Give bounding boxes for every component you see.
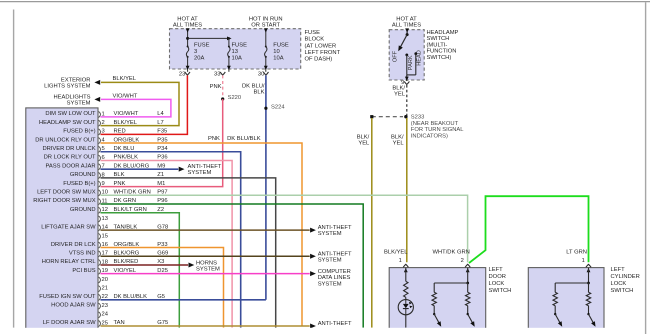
svg-text:23: 23 [179,71,185,77]
svg-text:L4: L4 [157,111,164,117]
wire ORG/BLK P33 row 16 [101,248,224,328]
svg-text:G69: G69 [157,251,168,257]
svg-text:ANTI-THEFT: ANTI-THEFT [188,164,222,170]
wire WHT/DK GRN P97 row 10 to door lock switch pin 2 [101,195,468,262]
door lock switch pin 2 wire and junction [434,268,469,285]
wire PNK/BLK P36 row 6 [101,160,233,327]
cylinder lock switch pin 1 wire and junction [555,268,590,285]
svg-text:21: 21 [102,286,108,292]
svg-text:BLK/YEL: BLK/YEL [113,76,137,82]
svg-text:BLK/: BLK/ [357,134,370,140]
svg-text:FUSE: FUSE [194,42,210,48]
module pin 5 [42,146,104,152]
frame right border [645,2,647,334]
svg-text:G78: G78 [157,224,168,230]
label HEAD [416,50,422,66]
svg-text:CYLINDER: CYLINDER [611,274,640,280]
svg-text:13: 13 [232,49,238,55]
svg-text:SWITCH: SWITCH [489,288,512,294]
cylinder lock switch blade (lock) [587,313,595,327]
svg-text:EXTERIOR: EXTERIOR [61,77,91,83]
svg-text:VIO/WHT: VIO/WHT [113,93,138,99]
svg-text:INDICATORS): INDICATORS) [411,134,448,140]
wire RED F35 label row 3 [114,129,168,135]
svg-text:SYSTEM: SYSTEM [318,281,342,287]
svg-text:PNK: PNK [210,84,222,90]
svg-text:1: 1 [582,258,585,264]
module pin 7 [45,163,104,169]
svg-text:F35: F35 [157,129,167,135]
module pin 24 [99,312,109,318]
svg-text:LF DOOR AJAR SW: LF DOOR AJAR SW [43,320,96,326]
headlamp switch blade (OFF position) [398,35,407,52]
splice S220 [221,97,224,100]
system reference ANTI-THEFT SYSTEM (row 25) [318,321,352,327]
module pin 1 [45,111,104,117]
wire VIO/WHT L4 label row 1 [114,111,165,117]
label BLK/YEL (right branch) [391,134,404,146]
svg-text:15: 15 [102,233,108,239]
svg-text:13: 13 [102,216,108,222]
svg-text:2: 2 [102,120,105,126]
svg-text:10: 10 [273,49,279,55]
label DK BLU/BLK (mid) [227,136,261,142]
svg-text:FUSED B(+): FUSED B(+) [63,181,95,187]
svg-text:D25: D25 [157,268,168,274]
wire BLK/YEL from pin 9 to splice S233 (dashed) [406,85,408,117]
svg-text:SWITCH): SWITCH) [427,55,452,61]
svg-text:HOT AT: HOT AT [396,16,417,22]
svg-text:BLK/YEL: BLK/YEL [384,249,408,255]
svg-text:FUSE: FUSE [232,42,248,48]
svg-text:1: 1 [399,258,402,264]
svg-text:BLOCK: BLOCK [305,37,325,43]
svg-text:DR LOCK RLY OUT: DR LOCK RLY OUT [44,155,96,161]
svg-text:LEFT: LEFT [611,267,626,273]
svg-text:VTSS IND: VTSS IND [69,251,96,257]
svg-text:SYSTEM: SYSTEM [196,267,220,273]
svg-text:G75: G75 [157,320,168,326]
svg-text:VIO/YEL: VIO/YEL [114,268,137,274]
svg-text:33: 33 [214,71,220,77]
fuse F13 10A [228,38,247,71]
svg-text:FUSED IGN SW OUT: FUSED IGN SW OUT [39,294,96,300]
svg-text:LOCK: LOCK [489,281,505,287]
svg-text:PARK: PARK [408,55,414,70]
svg-text:DK BLU/BLK: DK BLU/BLK [114,294,148,300]
label PARK [408,55,414,70]
svg-text:LOCK: LOCK [611,281,627,287]
svg-text:10A: 10A [273,56,283,62]
module pin 23 [51,303,108,309]
svg-text:DK BLU/ORG: DK BLU/ORG [114,163,150,169]
svg-text:BLK: BLK [114,172,125,178]
svg-text:RED: RED [114,129,126,135]
label LEFT DOOR LOCK SWITCH [489,267,512,294]
svg-text:9: 9 [102,181,105,187]
label WHT/DK GRN (door lock pin 2) [433,249,470,255]
module pin 4 [35,137,105,143]
svg-text:OF DASH): OF DASH) [305,57,333,63]
wire PNK dashed from fuse 13 pin 33 to S220 [222,75,224,99]
cylinder lock resistor R5 [586,283,590,314]
label BLK/YEL (exterior lights wire) [113,76,137,82]
svg-text:LEFT FRONT: LEFT FRONT [305,50,341,56]
svg-text:P36: P36 [157,155,167,161]
svg-text:(MULTI-: (MULTI- [427,42,448,48]
module pin 17 [69,251,108,257]
svg-text:HEADLAMP SW OUT: HEADLAMP SW OUT [39,120,96,126]
svg-text:PASS DOOR AJAR: PASS DOOR AJAR [45,163,95,169]
fuse F3 20A [186,42,209,72]
svg-text:P35: P35 [157,137,167,143]
fuse block pin 23 [179,71,190,77]
body control module connector (box) [26,108,98,330]
module pin 22 [39,294,108,300]
svg-text:LEFT DOOR SW MUX: LEFT DOOR SW MUX [37,190,96,196]
wire BLK/RED X3 row 18 to horns [101,262,195,267]
system reference EXTERIOR LIGHTS SYSTEM [44,77,100,89]
svg-text:23: 23 [102,303,108,309]
svg-text:2: 2 [461,258,464,264]
svg-text:DOOR: DOOR [489,274,506,280]
label HOT IN RUN OR START [249,16,283,28]
label S224 [271,105,285,111]
wire BLK/LT GRN Z2 row 12 [101,213,180,328]
svg-text:P97: P97 [157,190,167,196]
svg-text:Z1: Z1 [157,172,164,178]
module pin 18 [42,259,108,265]
headlamp switch output to pin 9 [406,75,408,81]
svg-text:HORN RELAY CTRL: HORN RELAY CTRL [42,259,97,265]
label BLK/YEL (door lock pin 1) [384,249,408,255]
wire BLK/YEL left branch down (to below) [371,118,373,328]
svg-text:P34: P34 [157,146,168,152]
door lock switch pin 2 [461,258,471,267]
headlamp switch pin 9 [401,80,409,86]
label PNK (mid) [208,136,220,142]
fuse block (box) [170,29,301,69]
module pin 9 [63,181,105,187]
svg-text:TAN: TAN [114,320,125,326]
module pin 20 [99,277,108,283]
svg-text:DRIVER DR UNLCK: DRIVER DR UNLCK [42,146,95,152]
svg-text:S224: S224 [271,105,285,111]
svg-text:ANTI-THEFT: ANTI-THEFT [318,321,352,327]
svg-text:DIM SW LOW OUT: DIM SW LOW OUT [45,111,96,117]
system reference ANTI-THEFT SYSTEM (row 7) [188,164,222,176]
door lock resistor R2 (unlock side) [432,283,436,314]
svg-text:ORG/BLK: ORG/BLK [114,137,140,143]
svg-text:DK BLU/: DK BLU/ [242,84,265,90]
svg-text:10A: 10A [232,56,242,62]
module pin 6 [44,155,105,161]
svg-text:L7: L7 [157,120,163,126]
fuse block pin 30 [258,71,269,77]
svg-text:M9: M9 [157,163,165,169]
svg-text:HOOD AJAR SW: HOOD AJAR SW [51,303,96,309]
cylinder lock resistor R4 [553,283,557,314]
svg-text:Z2: Z2 [157,207,164,213]
svg-text:LEFT: LEFT [489,267,504,273]
label LEFT CYLINDER LOCK SWITCH [611,267,640,294]
svg-text:HORNS: HORNS [196,260,217,266]
label VIO/WHT (headlights wire) [113,93,138,99]
svg-text:SWITCH: SWITCH [611,288,634,294]
svg-text:FUSE: FUSE [305,30,321,36]
label DK BLU/BLK (pin 30) [242,84,265,96]
svg-text:SYSTEM: SYSTEM [318,257,342,263]
label S220 [228,95,242,101]
system reference ANTI-THEFT SYSTEM (row 14) [318,225,352,237]
system reference HEADLIGHTS SYSTEM [53,94,100,106]
svg-text:DATA LINES: DATA LINES [318,275,351,281]
module pin 3 [63,129,105,135]
svg-text:20A: 20A [194,56,204,62]
svg-text:BLK/ORG: BLK/ORG [114,251,140,257]
headlamp switch PARK terminal [405,54,408,75]
svg-text:BLK/: BLK/ [392,85,405,91]
wire BLK/YEL L7 from module pin 2 to exterior lights system [101,82,180,125]
frame left border [13,10,15,328]
svg-text:(NEAR BEAKOUT: (NEAR BEAKOUT [411,121,459,127]
wire LT GRN from door lock switch pin 2 to cylinder lock switch pin 1 [469,196,589,263]
door lock switch blade (unlock) [433,313,441,327]
wire ORG/BLK P35 row 4 [101,143,303,326]
box-edge exit arrows (fuse block) [186,28,268,70]
svg-text:RIGHT DOOR SW MUX: RIGHT DOOR SW MUX [33,198,96,204]
wire VIO/YEL D25 row 19 to computer data lines [101,271,316,276]
svg-text:HOT AT: HOT AT [177,16,198,22]
svg-text:YEL: YEL [393,141,405,147]
module pin 13 [99,216,108,222]
svg-text:DK BLU/BLK: DK BLU/BLK [227,136,261,142]
svg-text:(AT LOWER: (AT LOWER [305,43,337,49]
svg-text:LIFTGATE AJAR SW: LIFTGATE AJAR SW [41,224,96,230]
svg-text:DK GRN: DK GRN [114,198,137,204]
svg-text:HEADLIGHTS: HEADLIGHTS [53,94,90,100]
system reference COMPUTER DATA LINES SYSTEM [318,269,351,288]
bus wire fuse 3 to fuse 13 with arrow [188,37,232,41]
svg-text:FOR TURN SIGNAL: FOR TURN SIGNAL [411,127,464,133]
system reference ANTI-THEFT SYSTEM (row 17) [318,251,352,263]
label PNK (pin 33) [210,84,222,90]
svg-text:WHT/DK GRN: WHT/DK GRN [114,190,151,196]
door lock resistor R3 (lock side) [466,283,470,314]
cylinder lock switch pin 1 [582,258,592,267]
svg-text:S233: S233 [411,115,425,121]
splice S233 [404,115,407,118]
svg-text:24: 24 [102,312,109,318]
wire PNK M1 from S220 to module pin 9 [101,99,223,187]
module pin 10 [37,190,108,196]
cylinder lock switch blade (unlock) [554,313,562,327]
svg-text:FUSE: FUSE [273,42,289,48]
frame top border [0,1,650,3]
headlamp switch U1 (box) [389,30,424,80]
wire BLK/ORG G69 row 17 to anti-theft [101,254,316,259]
svg-text:3: 3 [102,129,105,135]
wire VIO/WHT L4 from module pin 1 to headlights system [101,99,171,117]
svg-text:COMPUTER: COMPUTER [318,269,351,275]
wire DK BLU/ORG M9 row 7 to anti-theft [101,167,185,172]
fuse F10 10A [265,29,289,72]
wire BLK/YEL right branch down to door lock switch pin 1 [406,118,408,262]
svg-text:LIGHTS SYSTEM: LIGHTS SYSTEM [44,84,91,90]
module pin 16 [51,242,108,248]
svg-text:GROUND: GROUND [70,207,96,213]
module pin 2 [39,120,105,126]
svg-text:X3: X3 [157,259,164,265]
left cylinder lock switch (box) [528,268,604,330]
svg-text:3: 3 [194,49,197,55]
svg-text:SYSTEM: SYSTEM [318,231,342,237]
door lock switch blade (lock) [467,313,475,327]
svg-text:BLK/RED: BLK/RED [114,259,139,265]
svg-text:FUSED B(+): FUSED B(+) [63,129,95,135]
wire DK BLU/BLK G5 row 22 [101,299,266,301]
svg-text:PNK: PNK [114,181,126,187]
svg-text:LT GRN: LT GRN [566,249,587,255]
wire RED F35 from fuse 3 pin 23 to module pin 3 [101,75,188,134]
module pin 11 [33,198,107,204]
svg-text:PCI BUS: PCI BUS [72,268,95,274]
svg-text:BLK/YEL: BLK/YEL [114,120,138,126]
wire dashed branch S233 to left [370,115,403,118]
svg-text:G5: G5 [157,294,165,300]
label S233 (NEAR BEAKOUT FOR TURN SIGNAL INDICATORS) [411,115,464,140]
fuse block pin 33 [214,71,225,77]
svg-text:M1: M1 [157,181,165,187]
svg-text:BLK: BLK [254,90,265,96]
splice S224 [264,107,267,110]
module pin 19 [72,268,108,274]
door lock switch pin 1 [399,258,409,267]
svg-text:PNK/BLK: PNK/BLK [114,155,139,161]
label OFF [393,50,399,62]
svg-text:GROUND: GROUND [70,172,96,178]
svg-text:DK BLU: DK BLU [114,146,135,152]
label HOT AT ALL TIMES (fuse block) [173,16,202,28]
svg-text:OFF: OFF [393,50,399,62]
svg-text:VIO/WHT: VIO/WHT [114,111,139,117]
svg-text:FUNCTION: FUNCTION [427,49,457,55]
svg-text:ALL TIMES: ALL TIMES [392,23,421,29]
label BLK/YEL (pin 9 wire) [392,85,405,97]
label LT GRN [566,249,587,255]
label HOT AT ALL TIMES (headlamp switch) [392,16,421,28]
box-edge exit arrow (headlamp switch) [405,28,409,80]
svg-text:PNK: PNK [208,136,220,142]
box-edge entry arrow (cylinder lock switch) [587,268,591,272]
wire BLK/YEL L7 label row 2 [114,120,164,126]
module pin 15 [99,233,108,239]
svg-text:ALL TIMES: ALL TIMES [173,23,202,29]
svg-text:DR UNLOCK RLY OUT: DR UNLOCK RLY OUT [35,137,96,143]
svg-text:HOT IN RUN: HOT IN RUN [249,16,283,22]
svg-text:BLK/: BLK/ [391,134,404,140]
svg-text:DRIVER DR LCK: DRIVER DR LCK [51,242,96,248]
box-edge entry arrows (door lock switch) [404,268,470,272]
svg-text:SYSTEM: SYSTEM [67,100,91,106]
bottom clip band [0,328,650,334]
svg-text:BLK/LT GRN: BLK/LT GRN [114,207,147,213]
system reference HORNS SYSTEM [196,260,220,272]
module pin 8 [70,172,105,178]
module pin 14 [41,224,108,230]
module pin 25 [43,320,108,326]
svg-text:P33: P33 [157,242,167,248]
svg-text:TAN/BLK: TAN/BLK [114,224,138,230]
label HEADLAMP SWITCH (MULTI-FUNCTION SWITCH) [427,30,459,61]
module pin 21 [99,286,108,292]
module pin 12 [70,207,108,213]
svg-text:ANTI-THEFT: ANTI-THEFT [318,251,352,257]
label BLK/YEL (left branch) [357,134,370,146]
svg-text:1: 1 [102,111,105,117]
door lock illumination LED D1 [398,300,413,328]
svg-text:20: 20 [102,277,108,283]
left door lock switch (box) [389,268,486,330]
svg-text:YEL: YEL [394,92,406,98]
wire BLK Z1 row 8 [101,178,276,328]
wire DK GRN P96 row 11 [101,204,364,328]
label FUSE BLOCK (AT LOWER LEFT FRONT OF DASH) [305,30,341,62]
svg-text:WHT/DK GRN: WHT/DK GRN [433,249,470,255]
door lock illumination resistor R1 [404,268,408,300]
svg-text:ORG/BLK: ORG/BLK [114,242,140,248]
wire TAN/BLK G78 row 14 to anti-theft [101,228,316,233]
svg-text:ANTI-THEFT: ANTI-THEFT [318,225,352,231]
svg-text:P96: P96 [157,198,167,204]
svg-text:HEAD: HEAD [416,50,422,66]
svg-text:SYSTEM: SYSTEM [188,170,212,176]
svg-text:OR START: OR START [251,23,280,29]
headlamp switch HEAD terminal [407,52,417,75]
wire DK BLU P34 row 5 [101,152,241,328]
svg-text:HEADLAMP: HEADLAMP [427,30,459,36]
wire DK BLU/BLK from fuse 10 pin 30 through S224 down [265,75,267,299]
svg-text:YEL: YEL [358,141,370,147]
wire TAN G75 row 25 to anti-theft [101,323,316,328]
svg-text:SWITCH: SWITCH [427,36,450,42]
wire PNK M1 label row 9 [114,181,166,187]
headlamp switch feed wire [406,30,409,36]
wire feed to fuse 3 from hot bus [186,29,189,47]
svg-text:S220: S220 [228,95,242,101]
